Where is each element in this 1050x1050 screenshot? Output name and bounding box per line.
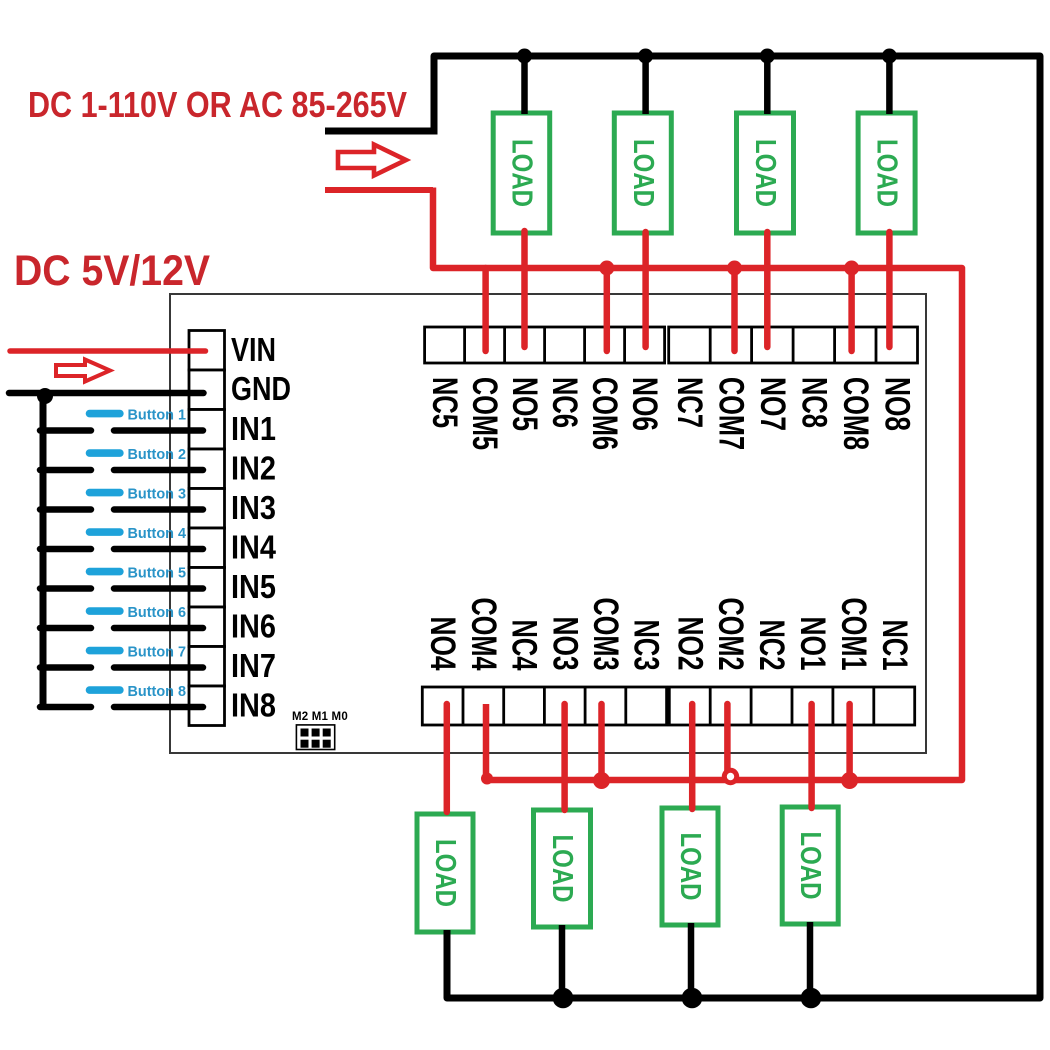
wire red stub COM7 <box>731 268 738 351</box>
wire black left bus <box>40 393 47 710</box>
button B2 <box>86 449 124 457</box>
bottom terminal strip group 1 <box>422 687 666 725</box>
junction top bus at L7 <box>760 49 775 64</box>
svg-text:LOAD: LOAD <box>546 835 578 903</box>
wire black stub to load L6 <box>642 56 649 114</box>
svg-text:COM2: COM2 <box>711 598 750 671</box>
load L6 <box>614 113 671 233</box>
wire red COM bus loop <box>433 188 962 781</box>
wire black stub to load L8 <box>886 56 893 114</box>
wire red NO4 to load L4 <box>444 704 451 812</box>
wire red stub NO3 to load L3 <box>561 704 568 810</box>
button B7 switch wires <box>40 664 203 671</box>
button B8 switch wires <box>40 704 203 711</box>
wire red load L7 to NO7 <box>764 232 771 347</box>
button B6 <box>86 607 124 615</box>
svg-text:NC6: NC6 <box>545 377 584 428</box>
svg-text:COM7: COM7 <box>711 377 750 450</box>
svg-text:IN1: IN1 <box>231 410 276 447</box>
svg-text:COM4: COM4 <box>464 598 503 671</box>
svg-text:NO1: NO1 <box>793 617 832 671</box>
svg-text:Button 8: Button 8 <box>128 683 187 700</box>
junction top bus at L8 <box>882 49 897 64</box>
svg-text:NO7: NO7 <box>753 377 792 431</box>
junction bottom bus at L2 <box>801 988 822 1009</box>
svg-text:M2 M1 M0: M2 M1 M0 <box>292 711 348 723</box>
junction bottom bus at L4 <box>553 988 574 1009</box>
load L5 <box>493 113 550 233</box>
button B1 <box>86 410 124 418</box>
svg-text:LOAD: LOAD <box>871 139 903 207</box>
junction red bottom bus corner COM4 <box>481 773 493 785</box>
svg-text:LOAD: LOAD <box>794 832 826 900</box>
load L1 <box>782 807 838 924</box>
svg-text:IN2: IN2 <box>231 450 276 487</box>
load L8 <box>858 113 915 233</box>
wire top black bus loop <box>434 56 1040 998</box>
load L4 <box>417 814 473 932</box>
junction red bottom bus at COM1 <box>841 772 858 789</box>
jumper block <box>296 725 334 750</box>
button B5 <box>86 568 124 576</box>
wire red stub COM1 <box>846 704 853 780</box>
button B4 <box>86 528 124 536</box>
svg-text:DC 5V/12V: DC 5V/12V <box>14 247 210 295</box>
svg-text:Button 4: Button 4 <box>128 525 187 542</box>
button B8 <box>86 686 124 694</box>
junction red bus at COM7 <box>727 261 742 276</box>
wire black stub to load L7 <box>764 56 771 114</box>
svg-text:IN4: IN4 <box>231 529 277 566</box>
wire GND black <box>9 390 204 397</box>
module board outline <box>170 294 926 753</box>
wire black load L3 to bottom bus <box>688 923 695 998</box>
top terminal strip group 1 <box>425 327 665 363</box>
svg-text:NO2: NO2 <box>670 617 709 671</box>
button B5 switch wires <box>40 585 203 592</box>
load L3 <box>534 810 591 927</box>
wire red load L6 to NO6 <box>642 232 649 347</box>
button B6 switch wires <box>40 625 203 632</box>
button B2 switch wires <box>40 467 203 474</box>
svg-text:Button 6: Button 6 <box>128 604 187 621</box>
svg-text:COM3: COM3 <box>586 598 625 671</box>
svg-text:Button 1: Button 1 <box>128 407 187 424</box>
svg-text:LOAD: LOAD <box>506 139 538 207</box>
junction red bottom bus at COM2 open <box>724 770 736 782</box>
junction top bus at L5 <box>517 49 532 64</box>
junction GND <box>37 388 53 404</box>
wire black load L4 to bottom bus <box>559 925 566 998</box>
button B7 <box>86 647 124 655</box>
wire red stub COM2 <box>724 704 731 771</box>
svg-text:LOAD: LOAD <box>749 139 781 207</box>
junction red bus at COM6 <box>599 261 614 276</box>
wire VIN red <box>10 348 206 354</box>
svg-text:IN6: IN6 <box>231 608 276 645</box>
bottom terminal strip group 2 <box>669 687 914 725</box>
wire red stub COM5 <box>482 268 489 351</box>
arrow DC input <box>56 360 110 382</box>
svg-text:NO5: NO5 <box>505 377 544 431</box>
svg-text:VIN: VIN <box>231 331 276 368</box>
junction top bus at L6 <box>638 49 653 64</box>
wire black load L2 to bottom bus <box>807 922 814 998</box>
svg-text:LOAD: LOAD <box>627 139 659 207</box>
svg-text:NC4: NC4 <box>505 620 544 671</box>
svg-text:Button 3: Button 3 <box>128 486 187 503</box>
wire red stub COM8 <box>848 268 855 351</box>
top terminal strip group 2 <box>669 327 918 363</box>
load L2 <box>662 808 718 925</box>
svg-text:NO3: NO3 <box>545 617 584 671</box>
svg-text:NC1: NC1 <box>875 620 914 671</box>
svg-text:IN8: IN8 <box>231 687 276 724</box>
svg-text:IN5: IN5 <box>231 568 276 605</box>
button B1 switch wires <box>40 427 203 434</box>
svg-text:NC8: NC8 <box>794 377 833 428</box>
svg-text:COM1: COM1 <box>834 598 873 671</box>
svg-text:COM6: COM6 <box>585 377 624 450</box>
junction red bus at COM8 <box>844 261 859 276</box>
svg-text:Button 2: Button 2 <box>128 446 187 463</box>
load L7 <box>737 113 794 233</box>
svg-text:NC2: NC2 <box>752 620 791 671</box>
svg-text:LOAD: LOAD <box>674 833 706 901</box>
svg-text:NO6: NO6 <box>625 377 664 431</box>
svg-text:NC7: NC7 <box>670 377 709 428</box>
svg-text:COM5: COM5 <box>465 377 504 450</box>
wire red stub COM6 <box>604 268 611 351</box>
wire red stub NO1 to load L1 <box>808 704 815 808</box>
wire red stub NO2 to load L2 <box>689 704 696 809</box>
wire black stub to load L5 <box>521 56 528 114</box>
svg-text:GND: GND <box>231 370 291 407</box>
svg-text:NO8: NO8 <box>877 377 916 431</box>
svg-text:IN3: IN3 <box>231 489 276 526</box>
svg-text:NO4: NO4 <box>423 617 462 671</box>
button B4 switch wires <box>40 546 203 553</box>
button B3 switch wires <box>40 506 203 513</box>
wire AC feeder black <box>325 128 437 135</box>
arrow AC input <box>338 145 406 176</box>
svg-text:Button 5: Button 5 <box>128 565 187 582</box>
left terminal strip <box>189 331 225 726</box>
button B3 <box>86 489 124 497</box>
svg-text:NC5: NC5 <box>425 377 464 428</box>
svg-text:IN7: IN7 <box>231 647 276 684</box>
wire red load L8 to NO8 <box>886 232 893 347</box>
svg-text:COM8: COM8 <box>836 377 875 450</box>
wire red stub COM3 <box>598 704 605 780</box>
wire red load L5 to NO5 <box>521 231 528 347</box>
wire DC feeder red <box>325 187 433 193</box>
svg-text:Button 7: Button 7 <box>128 644 187 661</box>
svg-text:DC 1-110V OR AC 85-265V: DC 1-110V OR AC 85-265V <box>28 84 407 125</box>
svg-text:NC3: NC3 <box>627 620 666 671</box>
junction red bottom bus at COM3 <box>593 772 610 789</box>
junction bottom bus at L3 <box>682 988 703 1009</box>
svg-text:LOAD: LOAD <box>429 839 461 907</box>
